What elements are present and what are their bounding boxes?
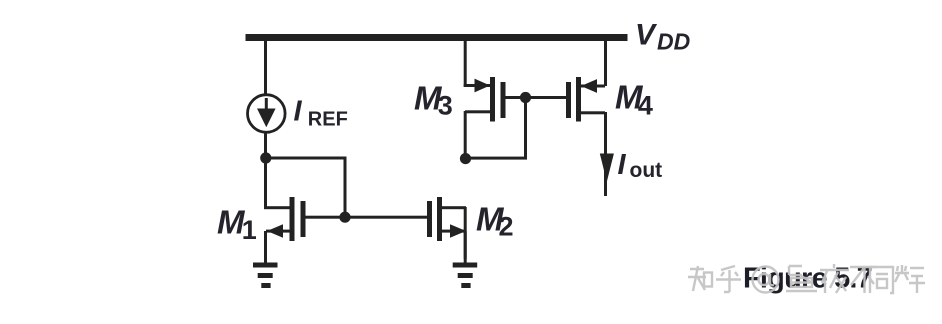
svg-text:out: out bbox=[630, 159, 663, 182]
wire VDD down to M3 source bbox=[464, 41, 490, 87]
wire node D down and left to node C bbox=[466, 98, 528, 160]
transistor M3 bbox=[465, 77, 506, 122]
node D junction dot on gate wire bbox=[520, 92, 531, 103]
node B junction dot on gate wire bbox=[339, 212, 350, 223]
char hui bbox=[895, 265, 925, 293]
wire node A down to M1 drain bbox=[264, 158, 290, 209]
svg-text:3: 3 bbox=[438, 91, 453, 121]
wire M4 drain down (output) bbox=[604, 112, 607, 196]
char tong bbox=[870, 267, 893, 293]
transistor M4 bbox=[566, 77, 605, 122]
wire M2 drain up to node C bbox=[464, 207, 467, 259]
Iout current arrow bbox=[600, 154, 614, 182]
svg-text:1: 1 bbox=[242, 215, 257, 245]
wire M4 source up to VDD bbox=[604, 41, 607, 86]
wire M2 source to ground bbox=[464, 231, 467, 263]
VDD rail bbox=[246, 34, 628, 41]
node A junction dot bbox=[260, 152, 271, 163]
transistor M2 bbox=[427, 197, 466, 241]
svg-text:REF: REF bbox=[308, 108, 348, 130]
wire M3 gate to M4 gate bbox=[506, 96, 567, 99]
current source IREF bbox=[247, 95, 285, 133]
svg-text:2: 2 bbox=[499, 212, 514, 242]
label M3 bbox=[414, 80, 453, 121]
ground (M2 source) bbox=[453, 263, 478, 289]
ground (M1 source) bbox=[253, 263, 278, 289]
label IREF bbox=[294, 95, 348, 130]
wire M3 drain down to node C bbox=[464, 111, 467, 159]
wire VDD to IREF bbox=[264, 41, 267, 94]
label VDD bbox=[635, 18, 690, 54]
svg-text:I: I bbox=[294, 95, 303, 127]
svg-text:4: 4 bbox=[638, 91, 653, 121]
svg-text:I: I bbox=[618, 149, 627, 181]
svg-text:DD: DD bbox=[657, 29, 690, 55]
wire M1 source to ground bbox=[264, 231, 267, 263]
char hu bbox=[716, 266, 741, 292]
char ye bbox=[820, 264, 849, 293]
watermark zhihu text bbox=[688, 264, 925, 293]
wire IREF to node A bbox=[264, 133, 267, 158]
label M4 bbox=[615, 79, 653, 121]
at sign bbox=[753, 267, 779, 293]
label M2 bbox=[476, 200, 514, 241]
char bu bbox=[850, 267, 877, 293]
node C junction dot bbox=[460, 153, 471, 164]
label Iout bbox=[618, 149, 663, 182]
char zhi bbox=[688, 266, 706, 291]
svg-text:V: V bbox=[635, 18, 658, 51]
transistor M1 bbox=[266, 197, 306, 241]
wire M1 gate to M2 gate bbox=[306, 216, 428, 219]
char zhou bbox=[786, 266, 817, 291]
label M1 bbox=[217, 203, 257, 245]
wire node A to gate wire (diode connection) bbox=[266, 157, 347, 218]
caption Figure 5.7 bbox=[743, 262, 872, 294]
